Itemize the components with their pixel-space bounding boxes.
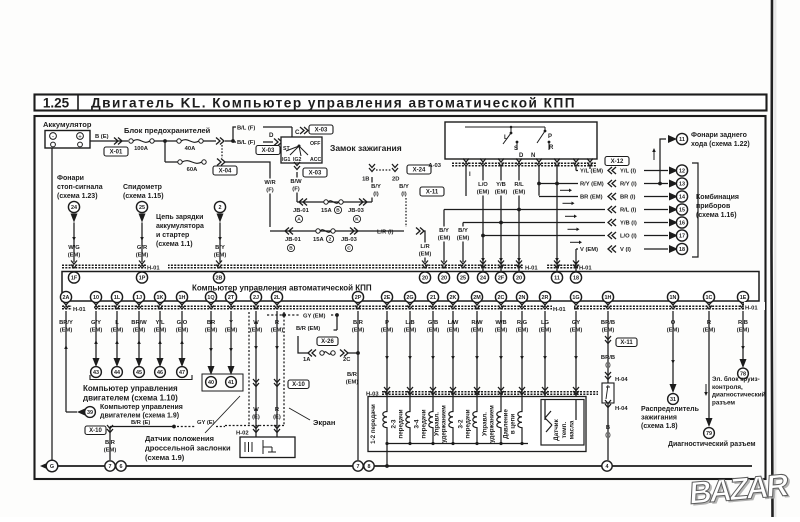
svg-text:H-02: H-02 (236, 431, 249, 437)
svg-text:JB-01: JB-01 (285, 237, 302, 243)
solenoid wire 433 (432, 311, 434, 396)
svg-text:6: 6 (120, 464, 123, 470)
svg-text:X-10: X-10 (89, 428, 102, 434)
svg-text:25: 25 (460, 275, 466, 281)
svg-text:X-04: X-04 (219, 169, 232, 175)
svg-text:W: W (253, 407, 259, 413)
label B/W (F) (288, 178, 305, 193)
svg-text:20: 20 (441, 275, 447, 281)
svg-text:1.25: 1.25 (43, 96, 70, 111)
svg-text:(схема 1.16): (схема 1.16) (696, 212, 737, 219)
svg-text:16: 16 (679, 220, 685, 226)
connector box X-24 (407, 165, 431, 174)
svg-text:1K: 1K (157, 295, 164, 301)
label B/Y (EM) 2 (455, 227, 472, 242)
wire W (255, 311, 257, 438)
ignition switch box (281, 137, 322, 163)
svg-text:Двигатель KL. Компьютер управл: Двигатель KL. Компьютер управления автом… (91, 96, 576, 111)
svg-text:15A: 15A (321, 208, 332, 214)
svg-text:R/L (I): R/L (I) (620, 208, 636, 214)
dashed col X-11 (405, 198, 407, 227)
svg-text:X-12: X-12 (611, 159, 624, 165)
label B/Y (EM) 1 (436, 227, 453, 242)
svg-text:Компьютер управления: Компьютер управления (100, 404, 183, 411)
svg-text:15A: 15A (313, 237, 324, 243)
svg-text:13: 13 (679, 181, 685, 187)
svg-text:стоп-сигнала: стоп-сигнала (57, 184, 103, 191)
svg-text:H-01: H-01 (579, 266, 592, 272)
label W/R (F) (262, 179, 279, 194)
svg-text:Диагностический разъем: Диагностический разъем (668, 440, 756, 448)
connector row2 end (416, 228, 424, 235)
svg-text:(I): (I) (605, 363, 611, 369)
svg-text:G/R: G/R (137, 245, 148, 251)
svg-text:11: 11 (554, 275, 560, 281)
svg-text:(EM): (EM) (495, 190, 508, 196)
svg-text:100A: 100A (134, 146, 149, 152)
svg-text:B: B (606, 425, 610, 431)
svg-text:BR/B: BR/B (601, 355, 615, 361)
inhibitor switch box (445, 122, 597, 159)
svg-text:B/L (F): B/L (F) (237, 126, 255, 132)
wire down to 7 (109, 427, 111, 461)
wire JB row1 (297, 201, 372, 203)
svg-text:(схема 1.15): (схема 1.15) (123, 193, 164, 200)
wire down to 60A (164, 141, 166, 162)
wire I contact (465, 166, 467, 196)
svg-text:диагностический: диагностический (712, 391, 766, 399)
svg-text:R/L: R/L (514, 182, 524, 188)
inhibitor internal wires (465, 126, 550, 150)
svg-text:46: 46 (157, 370, 163, 376)
svg-text:L: L (504, 135, 508, 141)
solenoid outer box (368, 397, 586, 452)
distributor 31 (670, 384, 677, 393)
bracket instrument cluster (692, 163, 698, 257)
shield dashed right (283, 312, 285, 425)
svg-text:(EM): (EM) (346, 380, 359, 386)
battery B1 (45, 131, 90, 149)
svg-text:масла: масла (569, 420, 576, 439)
label B/Y (I) left (368, 183, 385, 198)
svg-text:приборов: приборов (696, 202, 731, 210)
wire Y/B (500, 166, 502, 272)
svg-text:L/O (I): L/O (I) (620, 234, 637, 240)
wire 40A out (203, 140, 216, 142)
svg-text:JB-03: JB-03 (341, 237, 358, 243)
svg-text:2L: 2L (274, 295, 281, 301)
wire B/R 2P (357, 311, 359, 460)
svg-text:2R: 2R (542, 295, 549, 301)
svg-text:2B: 2B (216, 275, 223, 281)
connector 2D (392, 164, 398, 172)
svg-text:1A: 1A (303, 357, 311, 363)
svg-text:Фонари: Фонари (57, 175, 84, 182)
svg-text:1L: 1L (114, 295, 121, 301)
svg-text:GY (E): GY (E) (197, 420, 215, 426)
svg-text:1G: 1G (572, 295, 579, 301)
connector box X-03 top (309, 125, 333, 134)
svg-text:H-04: H-04 (615, 377, 628, 383)
svg-text:Экран: Экран (313, 418, 335, 427)
wire to ECU 43 (95, 311, 97, 358)
wire B/L upper (225, 127, 236, 141)
svg-text:B/R (E): B/R (E) (131, 420, 150, 426)
svg-text:IG1: IG1 (282, 157, 290, 163)
solenoid wire 477 (476, 311, 478, 396)
svg-text:удержанием: удержанием (489, 405, 496, 443)
svg-text:(I): (I) (373, 192, 379, 198)
wire circle18 feed (575, 249, 577, 272)
svg-text:2N: 2N (519, 295, 526, 301)
svg-text:2C: 2C (498, 295, 505, 301)
svg-text:24: 24 (71, 205, 77, 211)
wire to circle 4 (607, 403, 609, 460)
svg-text:(I): (I) (401, 192, 407, 198)
svg-text:X-10: X-10 (292, 382, 305, 388)
svg-text:2M: 2M (473, 295, 481, 301)
svg-text:передачи: передачи (421, 409, 428, 438)
svg-text:B/Y: B/Y (439, 228, 449, 234)
svg-text:-: - (52, 134, 54, 140)
connector C (300, 127, 308, 134)
svg-text:12: 12 (679, 168, 685, 174)
svg-text:H-01: H-01 (147, 266, 160, 272)
svg-text:(EM): (EM) (68, 253, 81, 259)
fuse 40A (177, 139, 203, 143)
jumper dashed 1B-2D (376, 169, 392, 171)
svg-text:S: S (514, 146, 518, 152)
svg-text:Компьютер управления: Компьютер управления (83, 384, 178, 393)
kpp part (62, 261, 600, 272)
instrument cluster rows (444, 165, 688, 255)
solenoid wire 522 (521, 311, 523, 396)
wire to ECU 44 (116, 311, 118, 358)
noise suppressor box (602, 383, 614, 403)
svg-text:(F): (F) (266, 188, 273, 194)
circle 41 (226, 377, 237, 388)
svg-text:аккумулятора: аккумулятора (156, 223, 204, 230)
svg-text:(EM): (EM) (457, 236, 470, 242)
svg-text:OFF: OFF (310, 141, 320, 147)
kpp part (59, 320, 749, 334)
svg-text:1N: 1N (670, 295, 677, 301)
wire B/Y em2 (462, 223, 464, 263)
bus A-03 dashed (452, 162, 596, 164)
svg-text:(E): (E) (273, 415, 281, 421)
svg-text:Датчик: Датчик (553, 418, 560, 440)
svg-text:Эл. блок круиз-: Эл. блок круиз- (712, 375, 760, 383)
svg-text:W/G: W/G (68, 245, 80, 251)
wire to ECU 45 (138, 311, 140, 358)
title number divider (77, 94, 79, 111)
solenoid wire 545 (544, 311, 546, 396)
svg-text:2D: 2D (392, 177, 399, 183)
connector battery X-01 (114, 138, 122, 145)
svg-text:X-11: X-11 (620, 340, 633, 346)
solenoid wire 410 (409, 311, 411, 396)
svg-text:L/R (I): L/R (I) (377, 230, 393, 236)
kpp part (62, 302, 765, 314)
connector box X-12 (605, 157, 629, 166)
svg-text:в цепи: в цепи (510, 414, 517, 435)
connector box X-03 left (256, 146, 280, 155)
svg-text:разъем: разъем (712, 399, 735, 406)
bottom bus (52, 465, 752, 467)
connector box X-04 (213, 166, 237, 175)
connector row2 right (350, 228, 358, 235)
svg-text:W/R: W/R (264, 180, 276, 186)
wire JB row2 (270, 230, 404, 232)
connector box X-03 bottom (303, 168, 327, 177)
svg-text:7: 7 (109, 464, 112, 470)
svg-text:BR (EM): BR (EM) (580, 195, 603, 201)
ground G (40, 463, 48, 470)
svg-text:2: 2 (329, 237, 332, 243)
connector box X-10 shield (288, 380, 309, 389)
ignition switch contacts (282, 141, 321, 163)
TPS box (240, 437, 295, 458)
svg-text:B (E): B (E) (95, 134, 109, 140)
svg-text:Спидометр: Спидометр (123, 184, 162, 191)
svg-text:Давление: Давление (503, 409, 510, 439)
svg-text:Цепь зарядки: Цепь зарядки (156, 214, 203, 221)
label B/Y (I) right (396, 183, 413, 198)
wire D contact (538, 166, 540, 196)
svg-text:2T: 2T (228, 295, 235, 301)
shield dashed bottom (225, 425, 284, 427)
connector row1 right (359, 199, 367, 206)
svg-text:3-2: 3-2 (458, 419, 465, 429)
svg-text:C: C (295, 129, 300, 136)
connector X-10 left (107, 425, 113, 433)
svg-text:D: D (269, 132, 274, 139)
connector H-04 bottom (605, 400, 611, 408)
svg-text:H-04: H-04 (615, 406, 628, 412)
wire GY EM dashed row (267, 314, 300, 316)
svg-text:V (EM): V (EM) (580, 247, 598, 253)
svg-text:17: 17 (679, 233, 685, 239)
svg-text:B/Y: B/Y (215, 245, 225, 251)
wire R/L (518, 166, 520, 272)
svg-text:1Q: 1Q (207, 295, 214, 301)
svg-text:B/L (F): B/L (F) (237, 140, 255, 146)
svg-text:Y/L (I): Y/L (I) (620, 169, 636, 175)
svg-text:H-01: H-01 (745, 306, 758, 312)
svg-text:3-4: 3-4 (414, 419, 421, 429)
wire 100A to 40A (154, 140, 179, 142)
svg-text:JB-03: JB-03 (348, 208, 365, 214)
svg-text:(I): (I) (605, 433, 611, 439)
wire to ECU 46 (159, 311, 161, 358)
junction 660 on RY row (658, 182, 662, 186)
svg-text:B: B (336, 208, 340, 214)
solenoid inner rail (387, 443, 528, 445)
svg-text:(схема 1.9): (схема 1.9) (145, 453, 185, 462)
temp sensor box (541, 400, 584, 446)
svg-text:40A: 40A (185, 146, 196, 152)
svg-text:B/Y: B/Y (458, 228, 468, 234)
svg-text:2G: 2G (406, 295, 413, 301)
main frame (35, 116, 766, 479)
svg-text:+: + (78, 135, 82, 141)
svg-text:25: 25 (139, 205, 145, 211)
box 40 41 (202, 374, 243, 391)
svg-text:1H: 1H (179, 295, 186, 301)
page edge shading (774, 0, 776, 517)
dashed link 40-60 (221, 145, 223, 158)
wire switch down (296, 172, 298, 202)
TPS internals (245, 440, 276, 454)
svg-text:контроля,: контроля, (712, 384, 743, 391)
svg-text:(EM): (EM) (513, 190, 526, 196)
svg-text:79: 79 (706, 431, 712, 437)
fuse 15A row1 (324, 200, 343, 204)
svg-text:18: 18 (573, 275, 579, 281)
svg-text:зажигания: зажигания (641, 415, 677, 422)
solenoid coil 477 (473, 397, 477, 444)
svg-text:Компьютер управления автоматич: Компьютер управления автоматической КПП (192, 284, 372, 293)
circle 40 (206, 377, 217, 388)
svg-text:41: 41 (228, 380, 234, 386)
svg-text:(E): (E) (252, 415, 260, 421)
svg-text:2P: 2P (355, 295, 362, 301)
svg-text:X-03: X-03 (315, 128, 328, 134)
svg-text:G: G (50, 464, 54, 470)
svg-text:B/R: B/R (347, 372, 358, 378)
solenoid wire 387 (386, 311, 388, 396)
wire to ECU 47 (181, 311, 183, 358)
connector D (274, 139, 282, 146)
svg-text:ACC: ACC (310, 157, 321, 163)
svg-text:хода (схема 1.22): хода (схема 1.22) (691, 141, 750, 148)
svg-text:B: B (289, 246, 293, 252)
svg-text:40: 40 (208, 380, 214, 386)
svg-text:Распределитель: Распределитель (641, 406, 700, 413)
junction B/L (231, 139, 235, 143)
bus circles 7 6 (105, 461, 115, 471)
svg-text:(EM): (EM) (104, 448, 117, 454)
svg-text:BR (I): BR (I) (620, 195, 636, 201)
svg-text:X-03: X-03 (309, 171, 322, 177)
fuse 60A (178, 160, 206, 164)
svg-text:двигателем (схема 1.9): двигателем (схема 1.9) (100, 413, 179, 420)
svg-text:(F): (F) (292, 187, 299, 193)
svg-text:2: 2 (219, 205, 222, 211)
up arrow near 11 (652, 148, 656, 160)
wire R (276, 311, 278, 438)
svg-text:Y/B (I): Y/B (I) (620, 221, 637, 227)
svg-text:2C: 2C (343, 357, 351, 363)
svg-text:двигателем (схема 1.10): двигателем (схема 1.10) (83, 394, 178, 403)
svg-text:(EM): (EM) (214, 253, 227, 259)
wire 590 stub (589, 166, 591, 169)
connector W mid (253, 379, 259, 387)
svg-text:8: 8 (368, 464, 371, 470)
svg-text:Y/B: Y/B (496, 182, 506, 188)
solenoid wire 501 (500, 311, 502, 396)
svg-text:1B: 1B (362, 177, 369, 183)
svg-text:X-03: X-03 (262, 148, 275, 154)
svg-text:2-3: 2-3 (391, 419, 398, 429)
svg-text:Аккумулятор: Аккумулятор (43, 120, 92, 129)
svg-text:темп.: темп. (561, 422, 568, 439)
svg-text:18: 18 (679, 247, 685, 253)
solenoid coil 433 (429, 397, 433, 444)
svg-text:B/Y: B/Y (371, 184, 381, 190)
junction fuse split (163, 139, 167, 143)
svg-text:R/Y (EM): R/Y (EM) (580, 182, 604, 188)
svg-text:C: C (347, 246, 351, 252)
svg-text:(EM): (EM) (477, 190, 490, 196)
svg-text:45: 45 (136, 370, 142, 376)
battery ground wire (51, 148, 53, 466)
TPS callout line (205, 396, 240, 433)
svg-text:B/W: B/W (290, 179, 302, 185)
svg-text:Замок зажигания: Замок зажигания (330, 143, 402, 153)
svg-text:(EM): (EM) (136, 253, 149, 259)
svg-text:(схема 1.8): (схема 1.8) (641, 423, 678, 430)
bus junction solenoid (385, 464, 389, 468)
svg-text:1F: 1F (71, 275, 78, 281)
connector 60A out (217, 159, 225, 166)
svg-text:V (I): V (I) (620, 247, 631, 253)
svg-text:20: 20 (422, 275, 428, 281)
svg-text:B/Y: B/Y (399, 184, 409, 190)
svg-text:2F: 2F (498, 275, 505, 281)
bus circle 4 (602, 461, 612, 471)
svg-text:K: K (355, 217, 359, 223)
svg-text:1E: 1E (740, 295, 747, 301)
svg-text:21: 21 (430, 295, 436, 301)
svg-text:(EM): (EM) (438, 236, 451, 242)
svg-text:L/R: L/R (420, 244, 430, 250)
wire R/B to 78 (742, 311, 744, 360)
svg-text:7: 7 (357, 464, 360, 470)
svg-text:B/R (EM): B/R (EM) (296, 326, 320, 332)
svg-text:B/R: B/R (105, 440, 116, 446)
svg-text:H-01: H-01 (73, 307, 86, 313)
solenoid coil 501 (497, 397, 501, 444)
svg-text:2A: 2A (63, 295, 70, 301)
svg-text:R/Y (I): R/Y (I) (620, 182, 637, 188)
connector row1 left (299, 199, 307, 206)
svg-text:R: R (549, 145, 554, 151)
svg-text:X-01: X-01 (110, 150, 123, 156)
connector 39 (77, 409, 85, 416)
X-26 subcircuit (298, 336, 308, 353)
svg-text:43: 43 (93, 370, 99, 376)
solenoid coil 410 (406, 397, 410, 444)
svg-text:1C: 1C (706, 295, 713, 301)
svg-text:1H: 1H (605, 295, 612, 301)
temp sensor symbol (545, 411, 552, 432)
connector R mid (274, 379, 280, 387)
svg-text:1-2 передачи: 1-2 передачи (370, 404, 377, 444)
svg-text:(схема 1.23): (схема 1.23) (57, 193, 98, 200)
svg-text:передачи: передачи (465, 409, 472, 438)
svg-text:Комбинация: Комбинация (696, 193, 739, 201)
cruise 78 (740, 359, 747, 368)
svg-text:удержанием: удержанием (441, 405, 448, 443)
svg-text:(EM): (EM) (419, 252, 432, 258)
shield dashed left (248, 312, 250, 425)
label L/R (EM) (417, 243, 434, 258)
svg-text:4: 4 (606, 464, 609, 470)
svg-text:15: 15 (679, 207, 685, 213)
wire 60A to W/R (225, 162, 270, 227)
svg-text:L/O: L/O (478, 182, 488, 188)
